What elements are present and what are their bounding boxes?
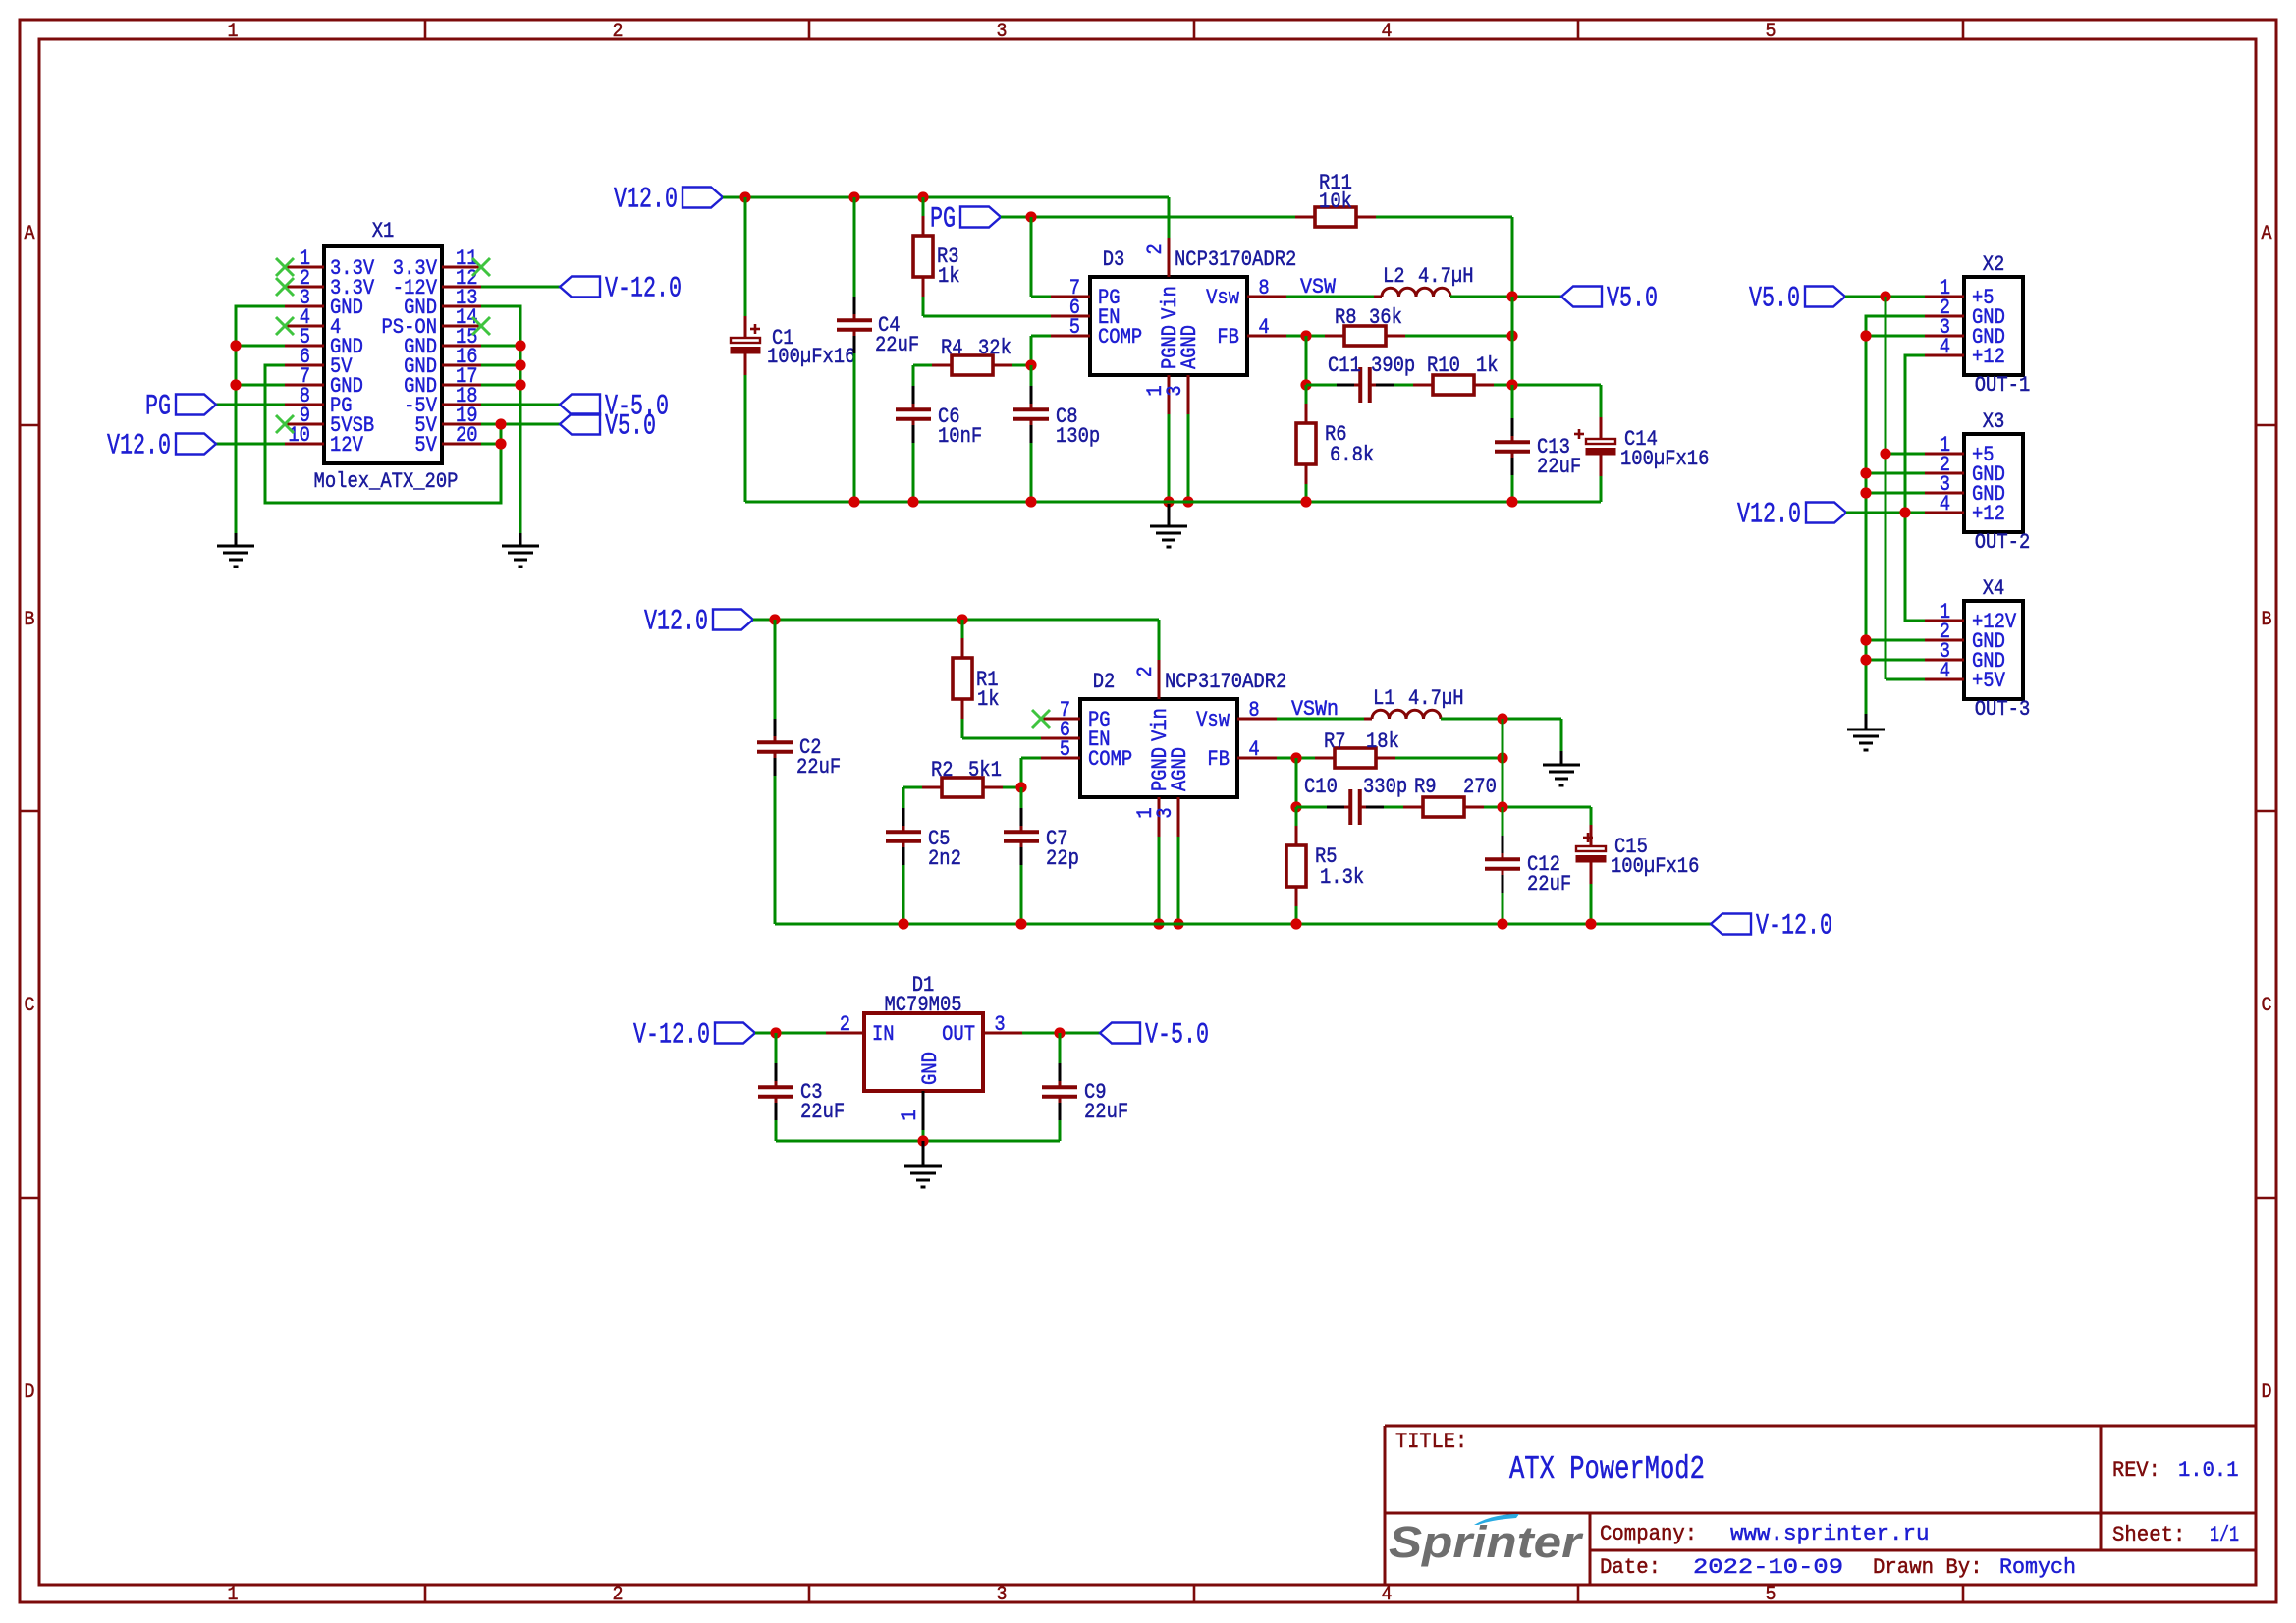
svg-text:3: 3	[1162, 385, 1187, 396]
resistor R7	[1315, 748, 1395, 768]
junction	[495, 438, 506, 449]
resistor R11	[1295, 207, 1376, 227]
svg-text:R4: R4	[941, 335, 963, 360]
junction	[1860, 654, 1871, 665]
capacitor C14	[1574, 417, 1615, 476]
junction	[230, 379, 241, 390]
regulator D1 body	[864, 1013, 983, 1091]
svg-text:V5.0: V5.0	[1607, 282, 1658, 315]
wire	[1286, 335, 1325, 338]
wire	[1030, 443, 1033, 502]
resistor R10	[1413, 375, 1494, 395]
D2 pin 6 EN	[1041, 717, 1111, 752]
svg-text:OUT-1: OUT-1	[1975, 372, 2031, 398]
svg-text:10nF: 10nF	[938, 423, 982, 449]
wire	[1590, 884, 1593, 924]
X1 pin 18	[404, 383, 481, 418]
svg-text:V-12.0: V-12.0	[633, 1018, 710, 1052]
junction	[769, 614, 780, 624]
hier label PG	[930, 202, 1001, 236]
connector X2 body	[1964, 277, 2023, 375]
svg-text:3: 3	[997, 21, 1008, 43]
junction	[1497, 801, 1507, 812]
capacitor C5	[886, 808, 921, 865]
ground (outputs)	[1847, 714, 1885, 750]
svg-text:MC79M05: MC79M05	[884, 992, 961, 1017]
wire	[1866, 659, 1925, 662]
junction	[1585, 918, 1596, 929]
wire	[1020, 787, 1023, 808]
svg-text:2022-10-09: 2022-10-09	[1693, 1554, 1843, 1580]
wire	[1177, 837, 1180, 924]
wire	[1277, 718, 1364, 721]
wire	[1846, 512, 1925, 514]
wire	[1511, 475, 1514, 502]
wire	[961, 719, 964, 738]
junction	[1290, 752, 1301, 763]
D3 pin 6 EN	[1051, 295, 1121, 330]
X1 pin 19	[414, 403, 481, 438]
wire	[1511, 217, 1514, 297]
ground (D3)	[1150, 504, 1187, 547]
svg-text:4: 4	[1940, 334, 1950, 359]
D3 pin 3 AGND	[1162, 325, 1202, 414]
svg-text:22uF: 22uF	[1527, 871, 1571, 896]
X1 pin 11	[393, 245, 481, 281]
svg-text:A: A	[25, 223, 35, 245]
X1 pin 1	[285, 245, 375, 281]
wire	[1560, 719, 1563, 751]
junction	[1880, 448, 1890, 459]
svg-text:4: 4	[1258, 314, 1269, 340]
svg-text:1k: 1k	[977, 686, 1000, 712]
hier label V12.0	[614, 183, 723, 216]
wire	[1502, 807, 1504, 836]
wire	[1845, 296, 1925, 298]
wire	[236, 306, 285, 533]
wire	[744, 375, 747, 502]
wire	[1012, 364, 1031, 367]
wire	[1001, 216, 1295, 219]
svg-text:Company:: Company:	[1600, 1521, 1697, 1546]
wire	[1022, 1032, 1100, 1035]
wire	[481, 306, 520, 533]
wire	[774, 776, 777, 924]
svg-text:D3: D3	[1103, 246, 1125, 272]
wire	[481, 404, 560, 406]
wire	[775, 1033, 778, 1063]
wire	[215, 443, 285, 446]
junction	[1025, 359, 1036, 370]
wire	[481, 364, 520, 367]
junction	[1860, 330, 1871, 341]
wire	[1886, 453, 1925, 456]
X1 pin 7	[285, 363, 363, 399]
wire	[1905, 355, 1925, 621]
svg-text:V12.0: V12.0	[107, 429, 171, 462]
resistor R9	[1403, 797, 1484, 817]
wire	[1511, 385, 1514, 418]
wire	[1030, 365, 1033, 386]
resistor R5	[1286, 826, 1306, 906]
hier label V12.0	[107, 429, 216, 462]
wire	[922, 297, 925, 316]
capacitor C10	[1327, 789, 1384, 825]
D3 pin 1 PGND	[1142, 325, 1182, 414]
wire	[961, 620, 964, 638]
svg-text:100µFx16: 100µFx16	[767, 344, 855, 369]
D3 pin 8 Vsw	[1206, 275, 1286, 310]
wire	[1376, 216, 1512, 219]
X1 pin 2	[285, 265, 375, 300]
D3 pin 7 PG	[1051, 275, 1121, 310]
junction	[957, 614, 967, 624]
junction	[515, 379, 525, 390]
junction	[1860, 634, 1871, 645]
wire	[1600, 385, 1603, 417]
svg-text:D2: D2	[1093, 669, 1116, 694]
svg-text:X3: X3	[1983, 408, 2005, 434]
svg-text:V5.0: V5.0	[605, 409, 656, 443]
junction	[1497, 918, 1507, 929]
svg-text:Vin: Vin	[1157, 286, 1182, 319]
wire	[1021, 757, 1041, 760]
svg-text:270: 270	[1463, 774, 1497, 799]
regulator D2 body	[1080, 699, 1237, 797]
svg-text:NCP3170ADR2: NCP3170ADR2	[1165, 669, 1286, 694]
svg-text:Molex_ATX_20P: Molex_ATX_20P	[314, 468, 459, 494]
svg-text:Sheet:: Sheet:	[2112, 1522, 2185, 1547]
wire	[1494, 384, 1601, 387]
wire	[1866, 472, 1925, 475]
no-connect	[472, 258, 490, 276]
wire	[236, 345, 285, 348]
junction	[1300, 496, 1311, 507]
svg-text:AGND: AGND	[1167, 747, 1192, 791]
X1 pin 17	[404, 363, 481, 399]
svg-text:100µFx16: 100µFx16	[1611, 853, 1699, 879]
X1 pin 12	[393, 265, 481, 300]
svg-text:390p: 390p	[1371, 352, 1415, 378]
wire	[922, 197, 925, 216]
svg-text:A: A	[2262, 223, 2272, 245]
wire	[481, 443, 501, 446]
wire	[1305, 484, 1308, 502]
svg-text:5: 5	[1766, 1584, 1777, 1606]
wire	[913, 364, 932, 367]
svg-text:1: 1	[897, 1109, 922, 1120]
wire	[902, 787, 905, 808]
X3 pin 1	[1925, 432, 1995, 467]
svg-text:C11: C11	[1328, 352, 1361, 378]
svg-text:2: 2	[613, 21, 624, 43]
wire	[1384, 806, 1403, 809]
svg-text:2n2: 2n2	[928, 845, 961, 871]
junction	[898, 918, 908, 929]
junction	[1290, 801, 1301, 812]
wire	[1502, 893, 1504, 924]
junction	[848, 191, 859, 202]
svg-text:L1: L1	[1373, 685, 1395, 711]
svg-text:3: 3	[994, 1011, 1005, 1037]
svg-text:X1: X1	[372, 218, 395, 243]
wire	[1405, 335, 1512, 338]
junction	[907, 496, 918, 507]
D3 pin 5 COMP	[1051, 314, 1142, 350]
wire	[1866, 335, 1925, 338]
junction	[917, 191, 928, 202]
svg-text:Vsw: Vsw	[1206, 285, 1239, 310]
svg-text:OUT-2: OUT-2	[1975, 529, 2031, 555]
wire	[1158, 837, 1161, 924]
svg-text:V5.0: V5.0	[1749, 282, 1800, 315]
svg-text:+12: +12	[1972, 344, 2005, 369]
svg-text:Vsw: Vsw	[1196, 707, 1230, 732]
svg-text:36k: 36k	[1369, 304, 1402, 330]
svg-text:2: 2	[613, 1584, 624, 1606]
svg-text:L2: L2	[1383, 263, 1405, 289]
wire	[1295, 758, 1298, 807]
svg-text:FB: FB	[1207, 746, 1230, 772]
junction	[739, 191, 750, 202]
svg-text:PG: PG	[930, 202, 956, 236]
D3 pin 2 Vin	[1142, 238, 1182, 319]
svg-text:V-12.0: V-12.0	[1756, 909, 1832, 943]
no-connect	[1032, 710, 1050, 728]
junction	[1899, 507, 1910, 517]
junction	[1182, 496, 1193, 507]
wire	[1059, 1120, 1062, 1141]
wire	[745, 501, 1601, 504]
wire	[922, 1130, 925, 1141]
wire	[481, 286, 560, 289]
junction	[1506, 291, 1517, 301]
junction	[1163, 496, 1174, 507]
wire	[1502, 719, 1504, 807]
wire	[775, 1120, 778, 1141]
junction	[1506, 330, 1517, 341]
wire	[775, 923, 1711, 926]
svg-text:330p: 330p	[1363, 774, 1407, 799]
wire	[1866, 639, 1925, 642]
svg-text:20: 20	[456, 422, 478, 448]
hier label PG	[145, 390, 216, 423]
D2 pin 3 AGND	[1152, 747, 1192, 837]
svg-text:5: 5	[1766, 21, 1777, 43]
connector X4 body	[1964, 601, 2023, 699]
capacitor C3	[758, 1063, 793, 1120]
junction	[770, 1027, 781, 1038]
resistor R1	[953, 638, 972, 719]
X1 pin 4	[285, 304, 341, 340]
svg-text:Romych: Romych	[1999, 1554, 2076, 1580]
X2 pin 4	[1925, 334, 2005, 369]
wire	[1305, 336, 1308, 385]
capacitor C11	[1337, 367, 1394, 403]
wire	[1158, 620, 1161, 660]
svg-text:1k: 1k	[938, 263, 960, 289]
junction	[1497, 713, 1507, 724]
ground (D1)	[904, 1141, 942, 1187]
svg-text:+12: +12	[1972, 501, 2005, 526]
X2 pin 1	[1925, 275, 1995, 310]
hier label V12.0	[1737, 498, 1846, 531]
svg-text:IN: IN	[872, 1021, 895, 1047]
X4 pin 3	[1925, 638, 2005, 674]
junction	[1300, 379, 1311, 390]
wire	[1020, 865, 1023, 924]
wire	[1511, 297, 1514, 385]
hier label V-5.0	[1100, 1018, 1209, 1052]
resistor R8	[1325, 326, 1405, 346]
svg-text:R2: R2	[931, 757, 954, 783]
wire	[723, 196, 1169, 199]
wire	[1168, 414, 1171, 502]
svg-text:COMP: COMP	[1088, 746, 1132, 772]
svg-text:22uF: 22uF	[1537, 454, 1581, 479]
junction	[1153, 918, 1164, 929]
wire	[912, 365, 915, 386]
X1 pin 9	[285, 403, 374, 438]
junction	[917, 1135, 928, 1146]
no-connect	[276, 415, 294, 433]
svg-text:10: 10	[288, 422, 310, 448]
wire	[1885, 297, 1887, 679]
junction	[1880, 291, 1890, 301]
svg-text:TITLE:: TITLE:	[1395, 1429, 1467, 1454]
capacitor C2	[757, 719, 793, 776]
svg-text:3: 3	[997, 1584, 1008, 1606]
wire	[1295, 807, 1298, 826]
wire	[1305, 385, 1308, 404]
junction	[1860, 487, 1871, 498]
X1 pin 16	[404, 344, 481, 379]
wire	[1866, 316, 1925, 714]
hier label V12.0	[644, 605, 753, 638]
D2 pin 1 PGND	[1132, 747, 1173, 837]
wire	[923, 315, 1051, 318]
capacitor C13	[1495, 418, 1530, 475]
svg-text:1.0.1: 1.0.1	[2178, 1457, 2239, 1483]
hier label V-12.0	[560, 272, 682, 305]
D2 pin 8 Vsw	[1196, 697, 1277, 732]
junction	[495, 418, 506, 429]
svg-text:2: 2	[1132, 666, 1158, 676]
svg-text:12V: 12V	[330, 432, 363, 458]
wire	[902, 865, 905, 924]
wire	[1031, 335, 1051, 338]
wire	[1450, 296, 1561, 298]
wire	[744, 197, 747, 316]
svg-text:22uF: 22uF	[796, 754, 841, 780]
wire	[1030, 217, 1033, 297]
svg-text:C: C	[25, 995, 35, 1017]
svg-text:Drawn By:: Drawn By:	[1873, 1554, 1983, 1580]
wire	[1306, 384, 1337, 387]
D2 pin 7 PG	[1041, 697, 1111, 732]
junction	[1015, 782, 1026, 792]
svg-text:22uF: 22uF	[800, 1099, 845, 1124]
svg-text:C: C	[2262, 995, 2272, 1017]
svg-text:2: 2	[840, 1011, 850, 1037]
wire	[1187, 414, 1190, 502]
junction	[1860, 467, 1871, 478]
svg-text:AGND: AGND	[1176, 325, 1202, 369]
wire	[216, 404, 285, 406]
X4 pin 4	[1925, 658, 2005, 693]
svg-text:www.sprinter.ru: www.sprinter.ru	[1730, 1521, 1930, 1546]
wire	[1031, 296, 1051, 298]
svg-text:10k: 10k	[1319, 189, 1352, 214]
no-connect	[276, 278, 294, 296]
wire	[1394, 384, 1413, 387]
X1 pin 8	[285, 383, 353, 418]
svg-text:Sprinter: Sprinter	[1389, 1517, 1584, 1567]
svg-text:V12.0: V12.0	[644, 605, 708, 638]
junction	[515, 359, 525, 370]
X4 pin 1	[1925, 599, 2017, 634]
junction	[1025, 211, 1036, 222]
svg-text:R9: R9	[1414, 774, 1437, 799]
connector X3 body	[1964, 434, 2023, 532]
svg-text:4: 4	[1940, 491, 1950, 516]
svg-text:X2: X2	[1983, 251, 2005, 277]
svg-text:OUT-3: OUT-3	[1975, 696, 2031, 722]
junction	[848, 496, 859, 507]
wire	[912, 443, 915, 502]
X3 pin 2	[1925, 452, 2005, 487]
wire	[1395, 757, 1503, 760]
no-connect	[276, 258, 294, 276]
wire	[903, 786, 922, 789]
svg-text:B: B	[25, 609, 35, 631]
resistor R2	[922, 778, 1003, 797]
wire	[481, 423, 560, 426]
svg-text:5: 5	[1060, 736, 1070, 762]
svg-text:2: 2	[1142, 243, 1168, 254]
X1 pin 13	[404, 285, 481, 320]
X1 pin 14	[382, 304, 482, 340]
wire	[753, 619, 1159, 622]
junction	[515, 340, 525, 351]
wire	[265, 365, 501, 503]
svg-text:V12.0: V12.0	[614, 183, 678, 216]
D2 pin 4 FB	[1207, 736, 1277, 772]
X3 pin 4	[1925, 491, 2005, 526]
svg-text:FB: FB	[1217, 324, 1239, 350]
resistor R3	[913, 216, 933, 297]
Sprinter logo	[1389, 1514, 1584, 1567]
svg-text:4: 4	[1248, 736, 1259, 762]
svg-text:1/1: 1/1	[2210, 1522, 2239, 1547]
wire	[1484, 806, 1591, 809]
inductor L1	[1364, 710, 1449, 719]
svg-text:4.7µH: 4.7µH	[1418, 263, 1474, 289]
svg-text:REV:: REV:	[2112, 1457, 2160, 1483]
junction	[1506, 379, 1517, 390]
X2 pin 2	[1925, 295, 2005, 330]
svg-text:4.7µH: 4.7µH	[1408, 685, 1464, 711]
hier label V-12.0	[633, 1018, 755, 1052]
capacitor C8	[1013, 386, 1049, 443]
X1 pin 20	[414, 422, 481, 458]
connector X1 body	[324, 246, 442, 463]
svg-text:GND: GND	[917, 1052, 943, 1085]
svg-text:OUT: OUT	[942, 1021, 975, 1047]
wire	[1020, 758, 1023, 787]
wire	[776, 1140, 1060, 1143]
ground (X1 right)	[502, 533, 539, 567]
